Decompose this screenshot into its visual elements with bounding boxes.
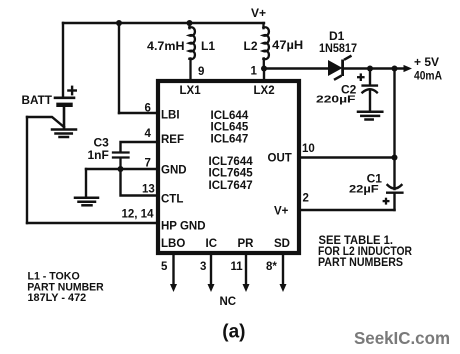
inductor L2 — [263, 23, 269, 69]
wire REF pin 4 — [121, 142, 159, 151]
wire LBI pin 6 — [119, 112, 158, 114]
svg-text:1nF: 1nF — [88, 148, 109, 162]
wire battery minus tap — [27, 117, 64, 127]
svg-text:SD: SD — [274, 238, 290, 250]
svg-text:40mA: 40mA — [414, 69, 442, 83]
svg-text:BATT: BATT — [22, 93, 53, 107]
wire V+ pin 2 — [299, 209, 395, 211]
node junction top rail / L1 — [187, 20, 193, 26]
svg-text:1: 1 — [251, 66, 258, 78]
svg-text:13: 13 — [142, 184, 155, 196]
svg-text:IC: IC — [206, 238, 218, 250]
svg-text:4.7mH: 4.7mH — [147, 39, 185, 53]
wire CTL pin 13 — [121, 169, 159, 196]
svg-text:ICL7645: ICL7645 — [209, 168, 254, 180]
svg-text:47µH: 47µH — [272, 38, 303, 52]
diode D1 triangle — [328, 60, 343, 76]
svg-text:L2: L2 — [244, 39, 258, 53]
svg-text:ICL644: ICL644 — [211, 110, 249, 122]
wire LBI branch vertical — [118, 23, 120, 113]
node junction +5V / C1 — [392, 66, 398, 72]
arrow +5V output — [404, 65, 413, 72]
wire L2 to diode — [264, 67, 327, 69]
svg-text:ICL7644: ICL7644 — [209, 156, 254, 168]
diode D1 schottky hooks — [334, 56, 352, 80]
label C1 plus — [383, 198, 390, 205]
svg-text:+ 5V: + 5V — [414, 55, 439, 69]
arrow LBO — [170, 284, 177, 292]
svg-text:LBO: LBO — [161, 238, 185, 250]
svg-text:REF: REF — [161, 134, 184, 146]
svg-text:ICL7647: ICL7647 — [209, 180, 253, 192]
wire PR pin 11 — [245, 255, 247, 285]
svg-text:220µF: 220µF — [316, 94, 356, 105]
node junction OUT / C1 — [392, 155, 398, 161]
svg-text:PART NUMBERS: PART NUMBERS — [318, 255, 403, 269]
arrow PR — [243, 284, 250, 292]
wire IC pin 3 — [210, 255, 212, 285]
svg-text:3: 3 — [200, 261, 206, 273]
capacitor C1 — [387, 185, 402, 210]
svg-text:SeekIC.com: SeekIC.com — [354, 328, 450, 348]
wire diode to +5V arrow — [343, 67, 407, 69]
ground below battery — [52, 130, 76, 138]
arrow IC — [208, 284, 215, 292]
svg-text:6: 6 — [145, 103, 151, 115]
svg-text:LX2: LX2 — [254, 85, 275, 97]
capacitor C3 — [113, 153, 129, 170]
svg-text:NC: NC — [220, 296, 237, 308]
wire +5V vertical to C1 — [393, 69, 395, 190]
op-amp U1 IC box — [158, 81, 299, 253]
svg-text:9: 9 — [198, 66, 204, 78]
svg-text:12, 14: 12, 14 — [122, 209, 155, 221]
wire left vertical to HP GND — [26, 117, 28, 223]
svg-text:5: 5 — [161, 261, 168, 273]
svg-text:11: 11 — [231, 261, 244, 273]
wire SD pin 8 — [282, 255, 284, 285]
ground below C2 — [358, 112, 382, 120]
battery BATT — [55, 98, 74, 128]
svg-text:10: 10 — [302, 143, 315, 155]
node junction top rail / LBI — [116, 20, 122, 26]
svg-text:(a): (a) — [222, 321, 245, 343]
svg-text:GND: GND — [161, 165, 187, 177]
svg-text:LBI: LBI — [161, 110, 180, 122]
svg-text:PR: PR — [238, 238, 255, 250]
capacitor C2 — [362, 69, 377, 111]
svg-text:ICL645: ICL645 — [211, 122, 249, 134]
svg-text:2: 2 — [303, 193, 309, 205]
label battery plus — [67, 86, 77, 96]
svg-text:V+: V+ — [251, 6, 266, 20]
svg-text:187LY - 472: 187LY - 472 — [28, 292, 87, 304]
node junction C3 / GND — [118, 166, 124, 172]
wire battery top — [62, 23, 64, 97]
svg-text:ICL647: ICL647 — [211, 134, 249, 146]
diode D1 cathode bar — [341, 60, 344, 77]
svg-text:4: 4 — [145, 128, 152, 140]
svg-text:8*: 8* — [266, 261, 277, 273]
svg-text:OUT: OUT — [268, 153, 292, 165]
svg-text:1N5817: 1N5817 — [319, 41, 357, 55]
svg-text:7: 7 — [145, 158, 151, 170]
wire HP GND pin 12,14 — [27, 222, 158, 224]
wire GND pin 7 — [86, 168, 158, 170]
svg-text:LX1: LX1 — [180, 85, 202, 97]
wire to ground below C3 — [85, 169, 87, 197]
wire LX2 pin 1 — [263, 69, 265, 82]
wire top rail V+ — [63, 22, 264, 24]
label C2 plus — [357, 73, 365, 81]
svg-text:22µF: 22µF — [349, 183, 379, 195]
wire LBO pin 5 — [172, 255, 174, 285]
ground below C3 — [75, 198, 98, 206]
node junction C2 — [367, 66, 373, 72]
inductor L1 — [189, 23, 195, 81]
node junction L2 / LX2 — [261, 66, 267, 72]
svg-text:V+: V+ — [274, 206, 289, 218]
arrow SD — [280, 284, 287, 292]
wire OUT pin 10 — [299, 156, 395, 158]
svg-text:HP GND: HP GND — [161, 221, 206, 233]
svg-text:CTL: CTL — [161, 194, 183, 206]
svg-text:L1: L1 — [201, 39, 215, 53]
